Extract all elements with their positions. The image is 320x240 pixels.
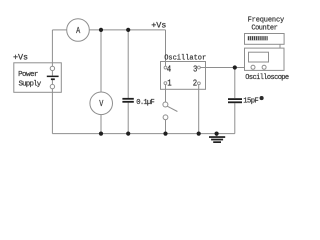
wire power supply bottom terminal to bottom rail xyxy=(51,89,53,134)
capacitor C2 15pF plates xyxy=(228,98,242,100)
svg-text:3: 3 xyxy=(193,64,197,75)
wire oscillator pin 3 to oscilloscope xyxy=(200,67,244,69)
wire +Vs drop to oscillator pin 4 xyxy=(165,30,167,66)
node bottom rail junction (0.1uF) xyxy=(126,132,130,136)
battery short plate xyxy=(51,78,55,80)
pin 1 circle xyxy=(164,82,167,85)
svg-text:15pF: 15pF xyxy=(243,98,258,106)
node junction pin3 wire / 15pF branch xyxy=(233,65,237,69)
svg-text:Oscillator: Oscillator xyxy=(164,55,206,63)
frequency counter FC1 xyxy=(245,16,285,44)
wire 0.1uF branch lower xyxy=(127,103,129,134)
oscilloscope OS1 xyxy=(245,48,289,82)
svg-text:Counter: Counter xyxy=(251,24,277,32)
pin 3 circle xyxy=(198,66,201,69)
wire oscillator pin 1 to switch xyxy=(165,84,167,102)
svg-text:+Vs: +Vs xyxy=(151,20,166,30)
battery long plate xyxy=(47,76,59,78)
power supply terminal bottom xyxy=(50,84,54,88)
node top rail junction (voltmeter branch) xyxy=(99,28,103,32)
wire top rail right segment xyxy=(89,29,165,31)
svg-text:Oscilloscope: Oscilloscope xyxy=(245,74,289,82)
wire junction to 15pF capacitor xyxy=(234,68,236,99)
wire voltmeter branch lower xyxy=(100,115,102,134)
svg-text:Supply: Supply xyxy=(19,81,42,89)
label asterisk blob xyxy=(260,96,264,100)
node top rail junction (0.1uF branch) xyxy=(126,28,130,32)
wire power supply terminal to battery xyxy=(51,71,53,76)
power supply terminal top xyxy=(50,66,54,70)
ammeter A1 xyxy=(67,19,90,42)
svg-text:Power: Power xyxy=(18,71,38,79)
voltmeter V1 xyxy=(90,92,113,115)
svg-text:+Vs: +Vs xyxy=(13,53,28,63)
svg-text:Frequency: Frequency xyxy=(248,16,284,24)
node bottom rail junction (voltmeter) xyxy=(99,132,103,136)
wire oscillator pin 2 to bottom rail xyxy=(198,85,200,134)
wire battery to bottom terminal xyxy=(51,80,53,85)
ground symbol xyxy=(209,136,225,143)
switch S1 contact bottom xyxy=(163,115,168,120)
ground stub xyxy=(216,134,218,137)
wire 0.1uF branch upper xyxy=(127,30,129,98)
svg-text:1: 1 xyxy=(167,78,171,89)
svg-text:2: 2 xyxy=(193,78,197,89)
svg-text:A: A xyxy=(76,26,80,36)
power supply PS1 box xyxy=(14,63,62,93)
wire 15pF capacitor to bottom rail xyxy=(234,103,236,133)
wire top rail left segment xyxy=(52,29,66,31)
node bottom rail junction (switch) xyxy=(163,132,167,136)
node bottom rail junction (pin 2) xyxy=(197,132,201,136)
oscillator U1 box xyxy=(161,55,207,90)
switch S1 blade xyxy=(167,106,177,111)
wire voltmeter branch upper xyxy=(100,30,102,92)
svg-text:4: 4 xyxy=(167,64,171,75)
wire frequency counter to oscilloscope xyxy=(279,44,281,48)
svg-text:V: V xyxy=(99,99,103,109)
pin 4 circle xyxy=(164,66,167,69)
capacitor C1 0.1uF plates xyxy=(122,98,133,100)
wire bottom rail xyxy=(52,133,234,135)
pin 2 circle xyxy=(198,82,201,85)
node bottom rail junction (ground) xyxy=(215,132,219,136)
wire switch to bottom rail xyxy=(165,120,167,134)
wire left vertical top rail to power supply terminal xyxy=(51,30,53,66)
svg-text:0.1µF: 0.1µF xyxy=(136,99,154,107)
switch S1 contact top xyxy=(163,102,168,107)
